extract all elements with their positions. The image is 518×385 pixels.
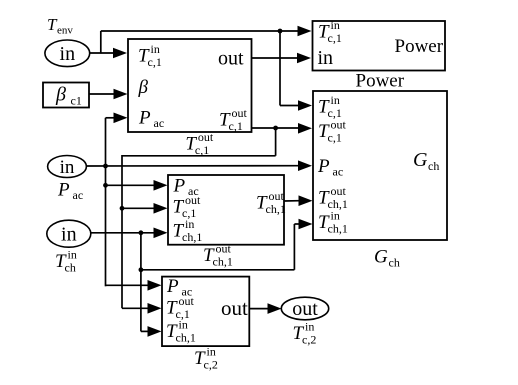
svg-text:ac: ac: [333, 165, 344, 179]
wire T_c,1_out vertical bus: [121, 155, 123, 308]
svg-text:in: in: [331, 209, 340, 223]
arrow into evaporator T_ch,1_in: [154, 228, 168, 239]
arrow into mixer T_c,1_out: [148, 303, 162, 314]
svg-text:ch,1: ch,1: [328, 222, 348, 236]
svg-text:ch: ch: [389, 256, 400, 270]
mixer block T_c,2_in: [162, 277, 249, 347]
arrow into G_ch T_c,1_out: [298, 123, 312, 134]
svg-text:c,2: c,2: [302, 333, 316, 347]
junction to evaporator P_ac: [103, 183, 108, 188]
svg-text:G: G: [413, 149, 428, 171]
svg-text:env: env: [57, 25, 73, 37]
svg-text:Power: Power: [356, 71, 405, 92]
svg-text:c,1: c,1: [148, 55, 162, 69]
svg-text:ch: ch: [65, 261, 76, 275]
arrow into chiller beta: [114, 89, 128, 100]
arrow into mixer P_ac: [148, 280, 162, 291]
wire branch down to G_ch T_c,1_in: [279, 31, 281, 106]
svg-text:out: out: [331, 184, 347, 198]
svg-text:c,2: c,2: [204, 358, 218, 372]
svg-text:ch: ch: [428, 159, 439, 173]
svg-text:β: β: [138, 77, 149, 98]
sink port out (T_c,2_in): [281, 297, 328, 320]
svg-text:ac: ac: [154, 116, 165, 130]
svg-text:out: out: [216, 242, 232, 256]
source port in (P_ac): [48, 156, 87, 178]
svg-text:out: out: [232, 106, 248, 120]
junction T_env net: [278, 29, 283, 34]
svg-text:ac: ac: [73, 188, 84, 202]
wire to mixer T_c,1_out: [122, 307, 149, 309]
arrow into evaporator T_c,1_out: [154, 203, 168, 214]
wire chiller T_c,1_out to G_ch: [251, 127, 299, 129]
svg-text:P: P: [138, 108, 151, 129]
arrow into G_ch T_c,1_in: [298, 100, 312, 111]
arrow into mixer T_ch,1_in: [148, 326, 162, 337]
junction T_ch_in net: [139, 230, 144, 235]
svg-text:out: out: [218, 48, 244, 70]
svg-text:in: in: [60, 43, 76, 65]
junction to G_ch branch: [139, 267, 144, 272]
svg-text:in: in: [305, 320, 314, 334]
wire chiller out to Power in: [251, 57, 297, 59]
svg-text:out: out: [331, 118, 347, 132]
wire branch T_env up to Power: [100, 31, 102, 54]
constant block beta_c1: [43, 83, 89, 108]
wire T_c,1_out down and left: [275, 128, 277, 156]
arrow into Power in: [297, 53, 311, 64]
arrow into Power T_c,1_in: [298, 26, 312, 37]
svg-text:out: out: [179, 294, 195, 308]
svg-text:out: out: [185, 193, 201, 207]
junction T_c,1_out net: [273, 126, 278, 131]
svg-text:c1: c1: [71, 94, 82, 108]
svg-text:in: in: [207, 345, 216, 359]
wire P_ac to G_ch: [86, 165, 299, 167]
wire mixer out to outport: [249, 308, 268, 310]
svg-text:in: in: [318, 47, 334, 69]
source port in (T_env): [45, 40, 90, 67]
svg-text:ch,1: ch,1: [176, 331, 196, 345]
svg-text:β: β: [55, 84, 66, 106]
arrow into outport: [268, 303, 282, 314]
wire evaporator T_ch,1_out to G_ch: [284, 200, 300, 202]
svg-text:out: out: [221, 296, 248, 320]
wire T_env to chiller T_c,1_in: [90, 52, 114, 54]
wire P_ac vertical bus down: [105, 166, 107, 286]
wire to mixer T_ch,1_in: [141, 330, 149, 332]
arrow into G_ch T_ch,1_out: [299, 195, 313, 206]
arrow into chiller P_ac: [114, 113, 128, 124]
junction P_ac net: [103, 164, 108, 169]
wire to mixer P_ac: [106, 284, 149, 286]
svg-text:ch,1: ch,1: [182, 230, 202, 244]
G_ch block: [313, 91, 447, 240]
svg-text:in: in: [151, 42, 160, 56]
svg-text:P: P: [166, 276, 179, 297]
wire T_ch_in vertical bus: [140, 233, 142, 332]
svg-text:P: P: [57, 180, 70, 201]
svg-text:Power: Power: [395, 36, 444, 57]
wire to evaporator P_ac: [106, 184, 155, 186]
wire to evaporator T_c,1_out: [122, 207, 154, 209]
svg-text:out: out: [198, 130, 214, 144]
evaporator block T_ch,1_out: [168, 175, 284, 245]
wire T_ch_in to evaporator: [91, 232, 154, 234]
svg-text:P: P: [317, 156, 330, 177]
wire T_ch_in to G_ch T_ch,1_in: [141, 269, 295, 271]
svg-text:P: P: [173, 176, 186, 197]
svg-text:in: in: [179, 318, 188, 332]
svg-text:in: in: [60, 157, 75, 178]
svg-text:in: in: [68, 248, 77, 262]
junction to evaporator T_c,1_out: [120, 206, 125, 211]
svg-text:out: out: [269, 189, 285, 203]
Power block: [313, 21, 446, 71]
svg-text:G: G: [374, 247, 388, 268]
svg-text:in: in: [331, 93, 340, 107]
svg-text:out: out: [292, 298, 318, 320]
wire P_ac up to chiller: [105, 118, 107, 166]
svg-text:in: in: [331, 18, 340, 32]
arrow into evaporator P_ac: [154, 180, 168, 191]
svg-text:in: in: [185, 217, 194, 231]
svg-text:c,1: c,1: [328, 31, 342, 45]
svg-text:in: in: [61, 223, 77, 245]
chiller block T_c,1_out: [128, 39, 252, 132]
svg-text:ch,1: ch,1: [213, 255, 233, 269]
arrow into G_ch T_ch,1_in: [299, 219, 313, 230]
source port in (T_ch_in): [47, 220, 91, 247]
wire beta_c1 to chiller beta: [89, 93, 114, 95]
svg-text:ch,1: ch,1: [266, 202, 286, 216]
svg-text:c,1: c,1: [195, 143, 209, 157]
svg-text:c,1: c,1: [328, 131, 342, 145]
arrow into G_ch P_ac: [298, 160, 312, 171]
svg-text:c,1: c,1: [229, 119, 243, 133]
arrow into chiller T_c,1_in: [113, 48, 127, 59]
